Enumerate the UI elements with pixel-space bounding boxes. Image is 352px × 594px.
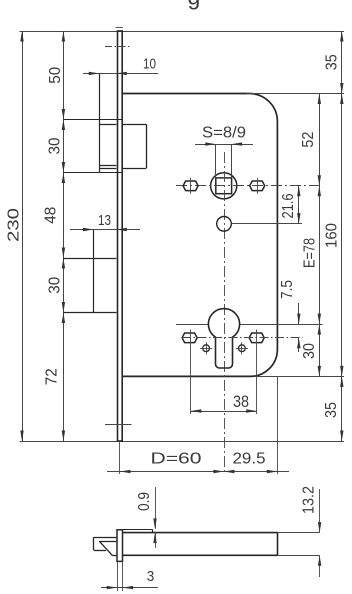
bottom view latch top edge [94, 537, 117, 539]
ext lines 3 [117, 561, 119, 591]
ext line right fixing hole down [256, 330, 258, 415]
svg-text:3: 3 [147, 568, 155, 585]
svg-text:7.5: 7.5 [279, 280, 296, 299]
svg-text:10: 10 [143, 55, 156, 72]
dimension chain line left [63, 31, 65, 441]
svg-text:38: 38 [233, 393, 249, 411]
dimension line right middle [319, 94, 321, 377]
dimension 7.5 lines [298, 303, 300, 324]
faceplate left edge [117, 31, 119, 441]
overshoot tick above plate top [116, 27, 123, 29]
svg-text:30: 30 [47, 137, 64, 154]
dimension 10 line [83, 73, 158, 75]
svg-text:160: 160 [324, 223, 341, 248]
case bottom ext right [255, 376, 344, 378]
dimension D/29.5 line [107, 471, 289, 473]
wire plate-top extension line [20, 31, 345, 33]
ext plate line down [119, 441, 121, 474]
dimension 3 line [101, 587, 158, 589]
latch guide tab line [123, 529, 153, 531]
bottom view latch inner line [99, 541, 117, 543]
svg-text:35: 35 [324, 54, 341, 70]
svg-text:30: 30 [47, 277, 64, 294]
dimension S line [195, 144, 253, 146]
small hole left of cylinder [203, 345, 210, 352]
dimension 13 line [70, 229, 140, 231]
ext case right down [277, 376, 279, 474]
follower circle [211, 173, 237, 199]
cylinder fixing hole left [182, 333, 197, 343]
svg-text:50: 50 [47, 67, 64, 84]
latch front face [99, 73, 101, 172]
svg-text:13: 13 [98, 212, 111, 229]
faceplate bottom cap [117, 440, 123, 442]
faceplate top cap [117, 30, 123, 32]
deadbolt bottom edge [63, 312, 116, 314]
svg-text:35: 35 [323, 402, 340, 418]
bottom view latch bottom edge [94, 550, 106, 552]
bottom view latch tab bottom [113, 555, 117, 557]
svg-text:52: 52 [300, 132, 317, 148]
fixing holes centerline [182, 337, 303, 339]
bottom view latch bevel diagonal [100, 542, 113, 556]
dimension 21.6 line [298, 186, 300, 224]
bottom view case bar top [123, 532, 278, 534]
latch cutout top line [63, 119, 122, 121]
small hole right of cylinder [239, 345, 246, 352]
svg-text:g: g [188, 0, 201, 10]
dimension line right outer [341, 31, 343, 441]
follower square hole [216, 178, 232, 194]
vertical centerline [224, 152, 226, 472]
bottom view faceplate bar [117, 530, 123, 562]
svg-text:0.9: 0.9 [136, 492, 153, 511]
svg-text:30: 30 [301, 343, 318, 359]
bottom view case bar bottom [123, 554, 278, 556]
bottom view latch left edge [93, 537, 95, 550]
case top ext right [247, 93, 344, 95]
guide hole circle [217, 217, 232, 232]
horizontal centerline follower [176, 185, 323, 187]
dimension 230 line [22, 31, 24, 441]
deadbolt top edge [63, 258, 116, 260]
dimension 13.2 line [319, 489, 321, 533]
follower screw hole left [183, 181, 198, 191]
svg-text:D=60: D=60 [151, 451, 202, 468]
latch body bottom line [99, 168, 116, 170]
cylinder fixing hole right [249, 333, 264, 343]
S dim extension right [231, 144, 233, 178]
guide hole ext line [232, 223, 303, 225]
svg-text:29.5: 29.5 [233, 451, 266, 468]
lock case body outline [122, 94, 277, 377]
svg-text:13.2: 13.2 [301, 486, 318, 514]
ext lines 13.2 [278, 532, 320, 534]
svg-text:S=8/9: S=8/9 [202, 125, 246, 142]
cylinder centerline ext right [240, 324, 323, 326]
faceplate right edge [121, 31, 123, 441]
svg-text:E=78: E=78 [302, 238, 319, 268]
svg-text:72: 72 [44, 368, 61, 385]
wire plate-bottom extension line [20, 441, 345, 443]
latch tail right edge [146, 124, 148, 168]
bottom view case right edge [277, 533, 279, 556]
latch guide tab edge [152, 529, 154, 532]
dimension 38 line [191, 411, 257, 413]
svg-text:230: 230 [6, 208, 23, 242]
latch body top line [99, 124, 116, 126]
follower screw hole right [250, 181, 265, 191]
bottom screw centerline [105, 424, 132, 426]
cylinder centerline left tick [176, 324, 208, 326]
S dim extension left [215, 144, 217, 178]
svg-text:48: 48 [43, 207, 60, 224]
top screw centerline [105, 46, 132, 48]
svg-text:21.6: 21.6 [280, 193, 297, 218]
ext line left fixing hole down [190, 330, 192, 415]
latch bevel bottom line [99, 165, 116, 167]
dimension 0.9 line [155, 487, 157, 529]
deadbolt front face [93, 230, 95, 313]
latch cutout bottom line [63, 172, 122, 174]
euro profile cylinder hole [208, 309, 239, 368]
